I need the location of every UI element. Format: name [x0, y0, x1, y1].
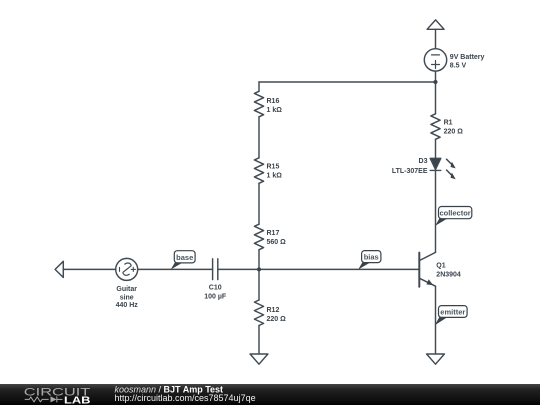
ground symbol left	[250, 354, 268, 364]
wire R15 to R17	[258, 183, 260, 224]
node flag emitter	[435, 306, 467, 326]
wire LED to collector	[435, 170, 437, 252]
wire R1 to LED D3	[435, 139, 437, 158]
svg-text:base: base	[176, 253, 193, 262]
svg-text:R17: R17	[267, 230, 280, 237]
svg-text:220 Ω: 220 Ω	[444, 129, 464, 136]
svg-text:R1: R1	[444, 120, 453, 127]
resistor R1	[431, 114, 440, 139]
battery minus sign	[432, 54, 440, 56]
wire node to R1	[435, 82, 437, 114]
wire R12 to ground	[258, 326, 260, 355]
node flag bias	[358, 251, 381, 270]
terminal arrow left (input)	[55, 261, 63, 277]
svg-text:2N3904: 2N3904	[436, 271, 461, 278]
LED D3 cathode bar	[430, 169, 441, 171]
source sine squiggle	[123, 263, 131, 275]
svg-text:440 Hz: 440 Hz	[116, 302, 139, 309]
svg-text:emitter: emitter	[440, 308, 465, 317]
svg-text:Guitar: Guitar	[116, 286, 137, 293]
svg-text:bias: bias	[364, 253, 379, 262]
svg-text:1 kΩ: 1 kΩ	[267, 107, 283, 114]
resistor R16	[254, 91, 263, 116]
capacitor C10 plates	[212, 259, 214, 280]
node flag collector	[435, 207, 472, 226]
svg-text:Q1: Q1	[436, 263, 445, 270]
svg-text:8.5 V: 8.5 V	[450, 62, 467, 69]
battery plus sign	[432, 61, 440, 69]
junction dot base node	[257, 267, 261, 271]
wire input to source	[63, 268, 115, 270]
wire R16 to R15	[258, 117, 260, 158]
terminal arrow up (battery top)	[427, 20, 444, 29]
resistor R12	[254, 300, 263, 325]
logo resistor squiggle and diode	[25, 396, 63, 402]
svg-text:R15: R15	[267, 164, 280, 171]
wire base node to R12	[258, 269, 260, 300]
top rail wire horizontal	[259, 81, 436, 83]
svg-text:220 Ω: 220 Ω	[267, 316, 287, 323]
LED D3 triangle	[430, 158, 441, 169]
transistor Q1 base bar	[418, 253, 420, 287]
svg-text:LTL-307EE: LTL-307EE	[392, 168, 428, 175]
svg-text:collector: collector	[439, 209, 470, 218]
wire emitter to ground	[435, 286, 437, 354]
wire top rail to R16	[258, 82, 260, 91]
svg-text:D3: D3	[419, 158, 428, 165]
svg-text:http://circuitlab.com/ces78574: http://circuitlab.com/ces78574uj7qe	[115, 393, 256, 403]
LED light arrow 1	[447, 159, 456, 168]
svg-text:R12: R12	[267, 307, 280, 314]
LED light arrow 2	[447, 170, 456, 179]
wire battery to top rail node	[435, 71, 437, 82]
junction dot top rail	[434, 80, 438, 84]
resistor R17	[254, 224, 263, 249]
wire R17 to base node	[258, 250, 260, 270]
svg-text:C10: C10	[209, 285, 222, 292]
node flag base	[171, 251, 195, 270]
resistor R15	[254, 158, 263, 183]
ground symbol right	[427, 354, 445, 364]
wire capacitor to node	[218, 268, 259, 270]
battery V2 circle	[424, 49, 446, 71]
svg-text:9V Battery: 9V Battery	[450, 54, 485, 61]
transistor Q1 collector diagonal	[419, 252, 435, 260]
transistor Q1 emitter arrowhead	[426, 279, 433, 285]
source plus sign	[131, 267, 135, 271]
svg-text:LAB: LAB	[64, 396, 91, 405]
svg-text:100 µF: 100 µF	[204, 294, 227, 301]
source V1 Guitar sine circle	[116, 258, 138, 280]
wire source to capacitor	[138, 268, 213, 270]
wire arrow to battery	[435, 29, 437, 48]
source minus sign	[119, 267, 121, 271]
wire node to transistor base	[259, 268, 419, 270]
svg-text:560 Ω: 560 Ω	[267, 239, 287, 246]
svg-text:R16: R16	[267, 98, 280, 105]
svg-text:1 kΩ: 1 kΩ	[267, 172, 283, 179]
transistor Q1 emitter diagonal	[419, 278, 435, 286]
svg-text:sine: sine	[120, 294, 134, 301]
